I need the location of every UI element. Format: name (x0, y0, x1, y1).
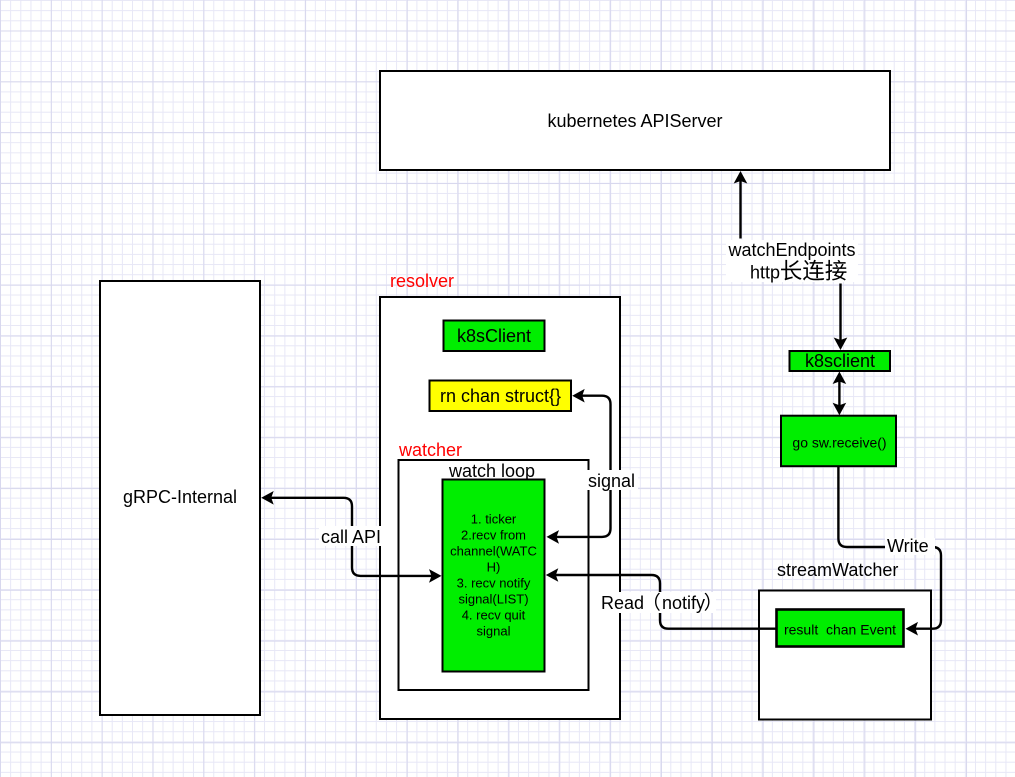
svg-text:2.recv from: 2.recv from (461, 528, 526, 543)
box k8sclient right (790, 351, 891, 371)
svg-text:channel(WATC: channel(WATC (450, 544, 537, 559)
svg-text:watchEndpoints: watchEndpoints (727, 240, 855, 260)
box streamWatcher (759, 591, 931, 720)
box watch loop steps (443, 480, 545, 672)
svg-text:notify: notify (662, 593, 705, 613)
svg-text:signal: signal (588, 471, 635, 491)
label call API (319, 526, 385, 547)
box k8sClient (444, 321, 545, 352)
wire call API path (261, 491, 441, 583)
label resolver (390, 271, 454, 291)
svg-text:gRPC-Internal: gRPC-Internal (123, 487, 237, 507)
wire http down arrow (834, 284, 848, 351)
label signal (586, 470, 638, 491)
wire watchEndpoints up arrow (734, 171, 748, 239)
wire signal path (547, 389, 611, 544)
box kubernetes APIServer (380, 71, 890, 170)
svg-text:go sw.receive(): go sw.receive() (792, 435, 886, 451)
label Write (885, 536, 935, 556)
svg-text:1. ticker: 1. ticker (471, 512, 517, 527)
svg-text:watcher: watcher (398, 440, 462, 460)
svg-text:call API: call API (321, 527, 381, 547)
svg-text:result chan Event: result chan Event (784, 621, 896, 637)
wire Read path (546, 568, 776, 629)
svg-text:Read: Read (601, 593, 644, 613)
svg-text:k8sClient: k8sClient (457, 326, 531, 346)
svg-text:watch loop: watch loop (448, 461, 535, 481)
label streamWatcher (777, 560, 898, 580)
label watcher (398, 440, 462, 460)
svg-text:H): H) (487, 560, 501, 575)
box result chan Event (777, 610, 904, 647)
box go sw.receive (781, 416, 896, 467)
wire Write path (838, 467, 941, 636)
label Read notify (598, 592, 716, 613)
svg-text:http: http (750, 263, 780, 283)
svg-text:4. recv quit: 4. recv quit (462, 608, 526, 623)
box gRPC-Internal (100, 281, 260, 715)
box watcher (399, 460, 589, 690)
svg-text:rn chan struct{}: rn chan struct{} (440, 386, 561, 406)
box resolver (380, 297, 620, 719)
svg-text:kubernetes APIServer: kubernetes APIServer (547, 111, 722, 131)
label watchEndpoints http (726, 240, 858, 283)
svg-text:streamWatcher: streamWatcher (777, 560, 898, 580)
svg-text:signal: signal (477, 624, 511, 639)
svg-text:resolver: resolver (390, 271, 454, 291)
svg-text:k8sclient: k8sclient (805, 351, 875, 371)
svg-text:Write: Write (887, 536, 929, 556)
svg-text:signal(LIST): signal(LIST) (458, 592, 528, 607)
box rn chan struct (430, 381, 572, 412)
svg-text:3. recv notify: 3. recv notify (457, 576, 531, 591)
wire k8sclient go double arrow (833, 372, 847, 416)
